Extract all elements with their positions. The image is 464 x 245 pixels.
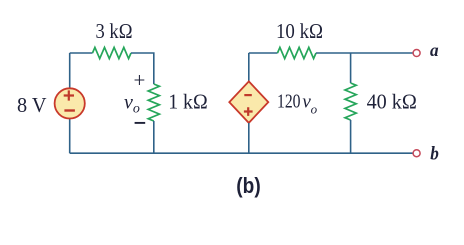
wire middle branch lower <box>153 121 155 153</box>
resistor R 10k zigzag <box>278 47 317 58</box>
svg-text:o: o <box>311 101 318 116</box>
resistor R 40k vertical zigzag <box>345 83 356 120</box>
wire top right segment <box>249 52 278 54</box>
svg-text:b: b <box>430 143 439 164</box>
svg-text:3 kΩ: 3 kΩ <box>96 19 133 43</box>
svg-text:1 kΩ: 1 kΩ <box>168 89 208 113</box>
resistor R 3k zigzag <box>93 47 132 58</box>
bottom rail wire <box>70 152 413 154</box>
svg-text:+: + <box>134 68 146 92</box>
wire left branch <box>69 53 71 153</box>
wire below dependent source <box>248 123 250 153</box>
resistor R 1k vertical zigzag <box>148 84 159 121</box>
svg-text:40 kΩ: 40 kΩ <box>367 90 417 114</box>
svg-text:8 V: 8 V <box>17 93 47 117</box>
wire 40k branch lower <box>350 120 352 153</box>
wire resistor to terminal a <box>316 52 413 54</box>
svg-text:120: 120 <box>277 91 301 113</box>
wire top left segment <box>70 52 93 54</box>
wire node top middle <box>131 53 154 84</box>
voltage source V1 8V <box>55 88 85 118</box>
dependent source 120vo diamond <box>229 81 268 123</box>
polarity minus of vo <box>135 122 146 124</box>
svg-text:a: a <box>430 40 439 60</box>
terminal a <box>413 50 420 57</box>
wire 40k branch upper <box>350 53 352 83</box>
terminal b <box>413 150 420 157</box>
svg-text:vo: vo <box>124 92 140 117</box>
wire above dependent source <box>248 53 250 82</box>
svg-text:10 kΩ: 10 kΩ <box>276 19 323 43</box>
svg-text:(b): (b) <box>236 173 260 198</box>
